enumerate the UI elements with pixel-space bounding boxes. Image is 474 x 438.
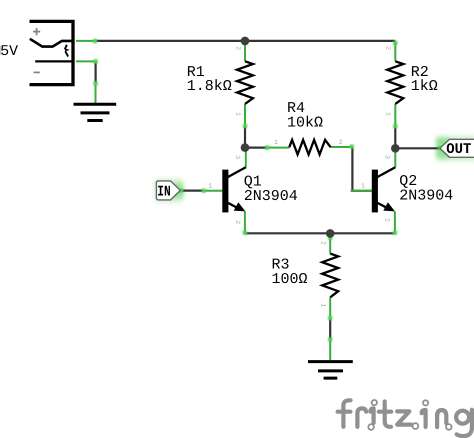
transistor Q1 emitter line [228, 203, 240, 209]
svg-text:3: 3 [234, 155, 241, 159]
wire: battery minus to ground [94, 61, 96, 83]
svg-text:1: 1 [320, 304, 327, 308]
svg-text:3: 3 [384, 155, 391, 159]
battery V1 minus sign [34, 71, 40, 73]
resistor R4 zigzag [289, 140, 330, 155]
transistor Q2 collector pin [394, 150, 396, 168]
label 5V [0, 46, 1, 55]
battery V1 plus sign [33, 28, 40, 35]
wire: R1 bottom to node B [244, 126, 246, 148]
resistor R1 pin1 lead [244, 104, 246, 126]
svg-text:1.8kΩ: 1.8kΩ [187, 78, 232, 95]
ground GND1 [74, 104, 117, 120]
fritzing logo [338, 400, 472, 436]
transistor Q1 collector line [228, 167, 246, 177]
flag OUT body [440, 139, 474, 157]
terminal square ground GND1 [93, 81, 97, 85]
terminal square R4 pin1 [265, 146, 269, 150]
terminal square Q2 base [372, 189, 376, 193]
svg-text:2: 2 [234, 220, 241, 224]
terminal square R4 pin2 [350, 145, 354, 149]
svg-text:1kΩ: 1kΩ [411, 78, 438, 95]
resistor R2 pin2 lead [394, 41, 396, 61]
terminal square Q1 base [202, 189, 206, 193]
battery minus pin [76, 60, 96, 62]
battery V1 minus lead [35, 60, 72, 62]
resistor R4 pin2 lead [331, 146, 352, 148]
svg-text:2: 2 [385, 46, 392, 50]
wire: emitter rail Q1 to Q2 [245, 232, 395, 234]
wire: R4 pin2 to Q2 base [352, 147, 372, 191]
svg-text:2: 2 [320, 241, 327, 245]
svg-text:5V: 5V [0, 44, 18, 60]
transistor Q1 emitter pin [244, 211, 246, 233]
transistor Q1 collector pin [245, 149, 247, 168]
terminal square R2 top [393, 41, 397, 45]
flag IN glow [154, 178, 184, 203]
svg-text:1: 1 [274, 139, 278, 146]
terminal square ground GND2 [328, 337, 332, 341]
svg-text:2: 2 [339, 139, 343, 146]
wire: R3 bottom to ground [329, 318, 331, 340]
terminal square OUT flag tip [438, 146, 442, 150]
junction node C [391, 144, 400, 153]
terminal square battery minus corner [94, 59, 98, 63]
transistor Q1 bar [222, 170, 228, 213]
svg-text:2: 2 [384, 218, 391, 222]
transistor Q2 emitter line [377, 203, 389, 209]
svg-text:2: 2 [234, 46, 241, 50]
battery V1 lightning bolt [65, 45, 70, 57]
junction node D emitter rail [326, 229, 335, 238]
transistor Q2 emitter pin [394, 211, 396, 233]
terminal square IN flag tip [179, 189, 183, 193]
terminal square R3 bottom [328, 316, 332, 320]
ground GND2 pin [329, 340, 331, 361]
svg-text:2N3904: 2N3904 [399, 188, 453, 205]
svg-text:IN: IN [157, 184, 170, 200]
transistor Q2 base pin [351, 190, 373, 192]
svg-text:1: 1 [361, 183, 365, 190]
svg-text:1: 1 [209, 183, 213, 190]
junction node B [241, 143, 250, 152]
transistor Q1 base pin [203, 190, 223, 192]
resistor R1 pin2 lead [244, 41, 246, 61]
resistor R1 zigzag [237, 61, 253, 104]
terminal square Q1 emitter [243, 231, 247, 235]
svg-text:1: 1 [234, 112, 241, 116]
wire: node B to R4 pin1 [245, 147, 268, 149]
terminal square R1 bottom [243, 124, 247, 128]
wire: R2 bottom to node C [394, 126, 396, 148]
ground GND1 pin [95, 83, 97, 103]
resistor R3 pin2 lead [329, 233, 331, 253]
terminal square battery plus [93, 39, 97, 43]
transistor Q2 collector line [377, 167, 395, 177]
resistor R2 pin1 lead [394, 104, 396, 126]
resistor R3 pin1 lead [329, 297, 331, 318]
resistor R4 pin1 lead [267, 147, 289, 149]
terminal square R3 top [328, 236, 332, 240]
svg-text:OUT: OUT [446, 142, 471, 158]
flag IN body [156, 181, 180, 200]
wire: node C to OUT flag [395, 147, 440, 149]
battery V1 body [30, 20, 74, 87]
transistor Q2 bar [372, 170, 378, 213]
ground GND2 [308, 362, 353, 379]
terminal square R2 bottom [393, 124, 397, 128]
resistor R2 zigzag [387, 61, 403, 104]
flag OUT glow [436, 136, 474, 162]
wire: IN flag to Q1 base [181, 190, 204, 192]
junction node A [241, 37, 250, 46]
resistor R3 zigzag [322, 254, 338, 298]
svg-text:10kΩ: 10kΩ [287, 114, 323, 131]
svg-text:100Ω: 100Ω [272, 271, 308, 288]
wire: node A to R2 top corner [245, 40, 395, 42]
svg-text:1: 1 [385, 112, 392, 116]
terminal square R1 top [243, 41, 247, 45]
svg-text:2N3904: 2N3904 [244, 188, 298, 205]
battery plus pin [76, 40, 97, 42]
transistor Q2 emitter arrow [383, 202, 395, 211]
terminal square Q2 emitter [393, 231, 397, 235]
wire: battery plus to node A [95, 40, 245, 42]
battery V1 plus lead polyline [30, 39, 72, 47]
transistor Q1 emitter arrow [234, 202, 246, 211]
